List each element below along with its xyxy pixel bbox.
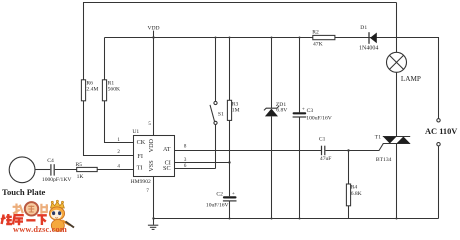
terminal AC top <box>437 119 440 122</box>
wire R1 bottom to CK <box>105 101 134 143</box>
svg-text:1K: 1K <box>77 174 84 180</box>
resistor R1 <box>102 38 120 101</box>
capacitor C4 <box>42 158 72 183</box>
lamp <box>387 3 421 137</box>
svg-text:VDD: VDD <box>148 138 155 152</box>
triac T1 <box>375 135 410 220</box>
svg-text:1000pF/1KV: 1000pF/1KV <box>42 177 72 183</box>
svg-text:7: 7 <box>146 189 149 194</box>
wire bottom rail <box>154 218 439 220</box>
svg-text:6.8K: 6.8K <box>351 191 362 197</box>
wire touch plate to C4 <box>35 169 50 171</box>
node gate junction <box>347 149 349 151</box>
power VDD <box>147 25 159 135</box>
svg-text:CK: CK <box>137 139 146 146</box>
svg-text:www.dzsc.com: www.dzsc.com <box>13 225 67 234</box>
找 char strokes <box>13 204 23 214</box>
ground <box>148 217 158 229</box>
svg-text:VDD: VDD <box>147 25 159 31</box>
svg-text:6.8V: 6.8V <box>276 108 287 114</box>
switch S1 <box>210 37 224 169</box>
svg-text:+: + <box>232 191 235 197</box>
一 <box>26 219 35 221</box>
下 <box>37 215 47 225</box>
terminal AC bottom <box>437 143 440 146</box>
svg-text:AC 110V: AC 110V <box>425 127 457 136</box>
magnifier ring char <box>25 202 38 215</box>
svg-text:VSS: VSS <box>148 160 155 172</box>
svg-text:5: 5 <box>148 122 151 127</box>
resistor R6 <box>81 80 98 101</box>
wire AT pin8 to C1 <box>175 150 322 152</box>
维库一下 red text strokes <box>1 214 47 225</box>
touch plate electrode <box>2 157 46 197</box>
svg-text:560K: 560K <box>108 86 120 92</box>
svg-text:47K: 47K <box>313 42 323 48</box>
resistor R5 <box>76 162 98 180</box>
wire R5 to TI <box>97 169 133 171</box>
svg-text:2: 2 <box>117 150 120 155</box>
svg-text:LAMP: LAMP <box>401 75 421 83</box>
diode D1 <box>359 25 378 51</box>
svg-text:HM9902: HM9902 <box>131 179 151 185</box>
op IC U1 HM9902 <box>117 122 186 194</box>
svg-text:SC: SC <box>163 165 171 172</box>
svg-text:8: 8 <box>184 144 187 149</box>
svg-text:100uF/16V: 100uF/16V <box>306 115 332 121</box>
svg-text:T1: T1 <box>375 135 381 141</box>
svg-text:C1: C1 <box>319 136 326 142</box>
resistor R3 <box>227 37 239 197</box>
svg-text:AT: AT <box>163 146 171 153</box>
resistor R4 <box>346 151 361 219</box>
capacitor C3 <box>293 37 332 220</box>
mascot head <box>49 207 64 220</box>
svg-text:4: 4 <box>117 165 120 170</box>
svg-text:C2: C2 <box>216 192 223 198</box>
svg-text:R2: R2 <box>312 30 319 36</box>
zener ZD1 <box>264 37 287 220</box>
svg-text:BT134: BT134 <box>376 157 392 163</box>
svg-text:10uF/16V: 10uF/16V <box>206 203 229 209</box>
capacitor C2 <box>206 191 237 219</box>
svg-text:+: + <box>302 107 305 113</box>
svg-text:Touch Plate: Touch Plate <box>2 187 46 197</box>
svg-text:D1: D1 <box>360 25 367 31</box>
库 <box>13 215 24 225</box>
svg-text:S1: S1 <box>218 112 224 118</box>
wire R6 bottom to FI <box>84 101 134 156</box>
svg-text:TI: TI <box>137 165 143 172</box>
wire pin7 to ground <box>153 177 155 225</box>
svg-text:2.4M: 2.4M <box>86 86 98 92</box>
svg-text:R5: R5 <box>76 162 83 168</box>
wire VDD rail to AC terminal <box>105 38 439 119</box>
svg-text:U1: U1 <box>132 129 139 135</box>
node pin3 junction <box>228 161 230 163</box>
mascot crown <box>51 202 65 209</box>
watermark dzsc logo <box>1 200 74 234</box>
resistor R2 <box>312 30 335 48</box>
wire C4 to R5 <box>55 169 77 171</box>
wire top rail with R6 left leg <box>84 3 397 81</box>
wire CI pin3 to C2 node <box>175 162 230 164</box>
svg-text:C4: C4 <box>47 158 54 164</box>
svg-text:R4: R4 <box>351 185 358 191</box>
片 char strokes <box>41 204 48 214</box>
svg-text:C3: C3 <box>307 108 314 114</box>
capacitor C1 <box>319 136 332 162</box>
svg-text:FI: FI <box>137 153 143 160</box>
svg-text:1M: 1M <box>232 108 240 114</box>
mascot body <box>51 220 64 232</box>
wire SC pin6 to S1 column <box>175 168 216 170</box>
wire AC bottom to rail <box>438 146 440 219</box>
维 <box>1 214 12 225</box>
svg-text:47uF: 47uF <box>320 156 332 162</box>
wire C1 to triac gate <box>325 144 383 151</box>
svg-text:1N4004: 1N4004 <box>359 45 378 51</box>
